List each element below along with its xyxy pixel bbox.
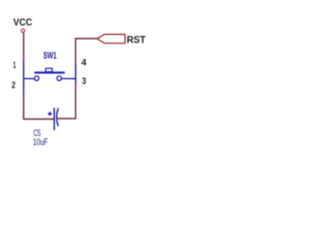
svg-text:4: 4	[81, 56, 87, 67]
svg-text:3: 3	[82, 75, 86, 86]
svg-text:2: 2	[12, 79, 16, 90]
svg-text:10uF: 10uF	[33, 136, 48, 147]
svg-text:1: 1	[13, 59, 16, 70]
svg-text:VCC: VCC	[13, 17, 32, 28]
svg-text:SW1: SW1	[43, 51, 57, 62]
svg-text:RST: RST	[127, 35, 146, 46]
